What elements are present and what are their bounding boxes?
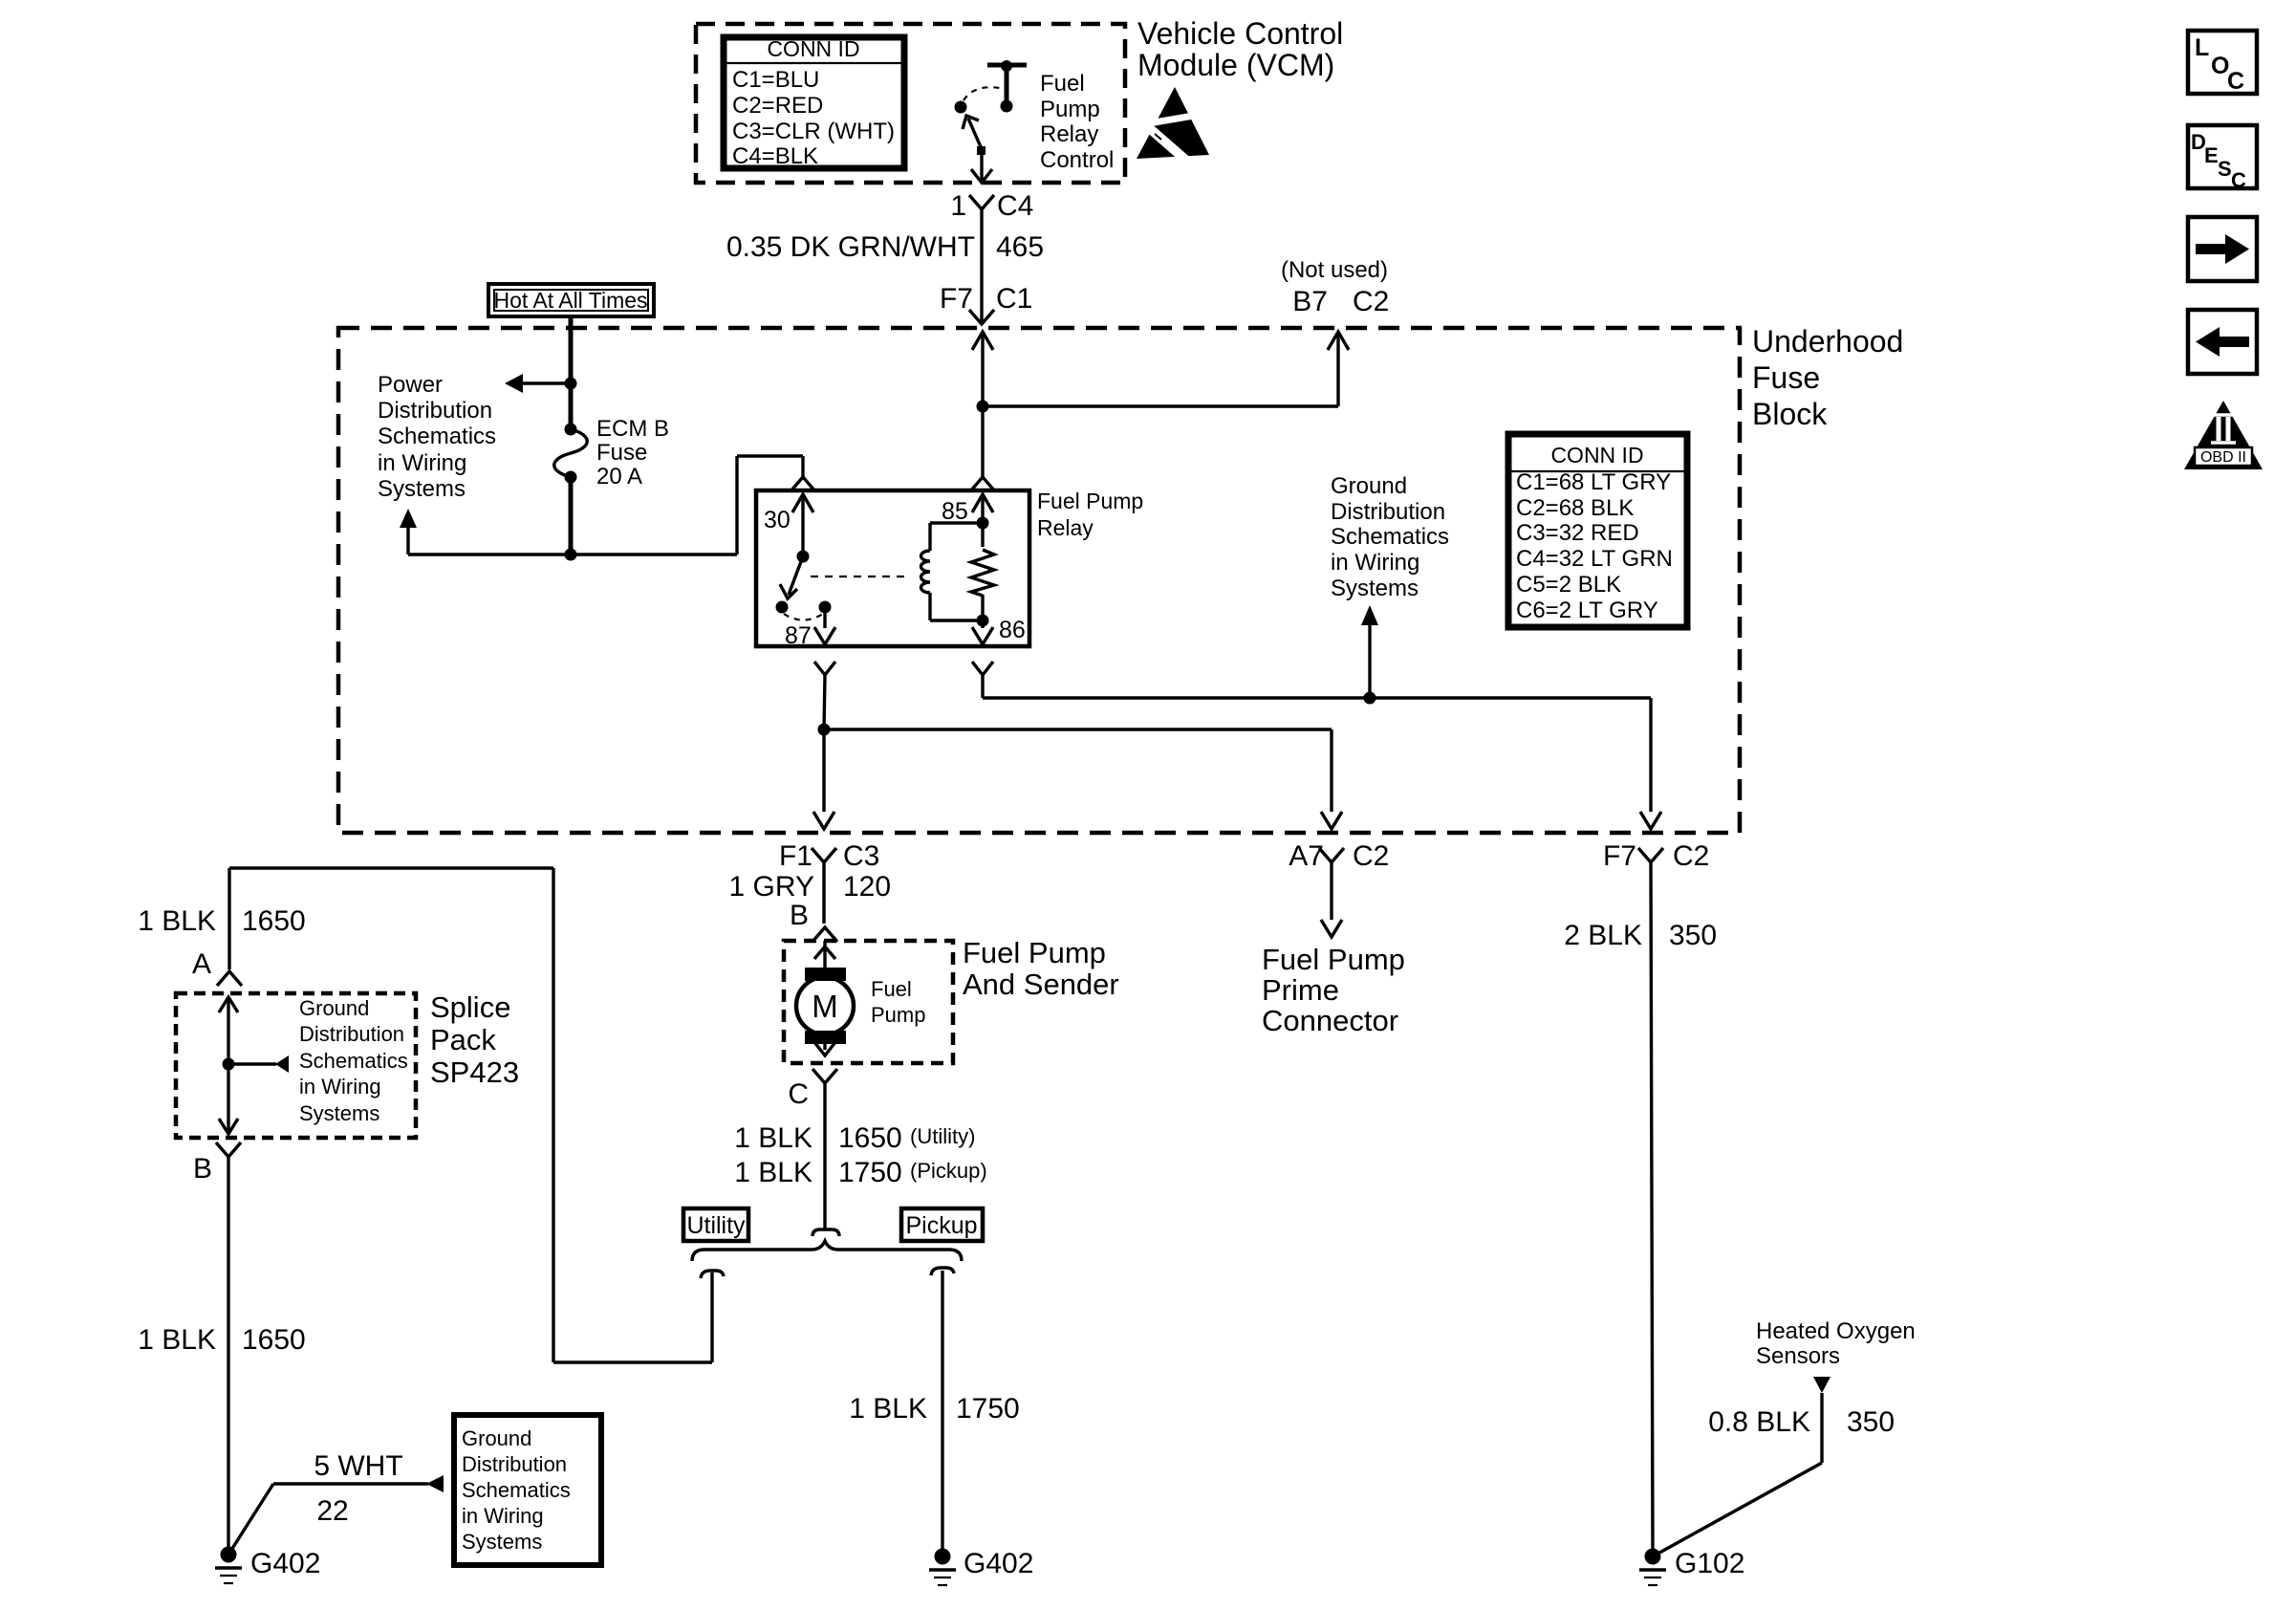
svg-text:G102: G102 <box>1675 1548 1744 1579</box>
svg-text:1650: 1650 <box>242 1324 306 1356</box>
svg-text:Fuse: Fuse <box>1752 360 1820 395</box>
svg-text:in Wiring: in Wiring <box>462 1504 544 1528</box>
svg-text:C: C <box>2227 68 2244 95</box>
svg-text:87: 87 <box>785 622 812 649</box>
svg-text:C6=2 LT GRY: C6=2 LT GRY <box>1516 598 1658 623</box>
svg-text:465: 465 <box>996 231 1044 263</box>
svg-text:Ground: Ground <box>462 1426 531 1450</box>
svg-text:Systems: Systems <box>299 1101 379 1125</box>
svg-text:M: M <box>812 989 838 1024</box>
svg-text:L: L <box>2195 34 2209 61</box>
svg-text:1650: 1650 <box>242 905 306 937</box>
svg-text:G402: G402 <box>250 1548 320 1579</box>
svg-text:5 WHT: 5 WHT <box>314 1450 402 1482</box>
svg-text:350: 350 <box>1669 920 1717 951</box>
svg-text:Schematics: Schematics <box>462 1478 571 1502</box>
svg-text:1 GRY: 1 GRY <box>729 871 815 903</box>
svg-text:120: 120 <box>843 871 891 903</box>
svg-text:C2: C2 <box>1353 286 1389 317</box>
svg-text:350: 350 <box>1847 1406 1895 1438</box>
svg-text:G402: G402 <box>964 1548 1033 1579</box>
svg-text:Distribution: Distribution <box>299 1022 404 1046</box>
svg-text:Schematics: Schematics <box>299 1049 408 1073</box>
svg-text:C3: C3 <box>843 840 879 872</box>
svg-text:Heated Oxygen: Heated Oxygen <box>1756 1318 1916 1344</box>
svg-text:Schematics: Schematics <box>1331 524 1449 550</box>
svg-text:2 BLK: 2 BLK <box>1564 920 1642 951</box>
svg-text:Fuel Pump: Fuel Pump <box>1037 489 1143 513</box>
svg-text:B: B <box>193 1153 212 1185</box>
svg-text:C2=68 BLK: C2=68 BLK <box>1516 495 1634 521</box>
svg-text:Distribution: Distribution <box>378 398 492 424</box>
svg-text:1 BLK: 1 BLK <box>734 1157 812 1188</box>
svg-text:C1=BLU: C1=BLU <box>732 67 819 93</box>
svg-text:B: B <box>790 900 809 931</box>
svg-text:86: 86 <box>999 617 1026 643</box>
svg-text:1 BLK: 1 BLK <box>849 1393 927 1425</box>
svg-text:(Pickup): (Pickup) <box>910 1159 987 1183</box>
svg-text:Fuel: Fuel <box>871 977 912 1001</box>
svg-text:1750: 1750 <box>838 1157 902 1188</box>
svg-text:C: C <box>788 1078 809 1110</box>
svg-text:C1=68 LT GRY: C1=68 LT GRY <box>1516 469 1671 495</box>
svg-text:C5=2 BLK: C5=2 BLK <box>1516 572 1621 598</box>
svg-text:Underhood: Underhood <box>1752 324 1903 359</box>
svg-text:Fuse: Fuse <box>596 440 647 466</box>
svg-text:Utility: Utility <box>686 1212 746 1239</box>
svg-text:Power: Power <box>378 372 443 398</box>
svg-text:ECM B: ECM B <box>596 416 669 442</box>
svg-text:in Wiring: in Wiring <box>378 450 466 476</box>
svg-text:Systems: Systems <box>1331 576 1419 601</box>
svg-text:Systems: Systems <box>462 1530 542 1554</box>
svg-text:Prime: Prime <box>1262 973 1339 1007</box>
svg-text:S: S <box>2218 157 2232 181</box>
svg-text:C3=CLR (WHT): C3=CLR (WHT) <box>732 119 895 144</box>
svg-text:in Wiring: in Wiring <box>1331 550 1419 576</box>
svg-text:Connector: Connector <box>1262 1004 1398 1037</box>
svg-text:A: A <box>192 948 211 980</box>
svg-text:Pump: Pump <box>871 1003 925 1027</box>
svg-text:85: 85 <box>942 498 968 525</box>
svg-text:Ground: Ground <box>299 996 369 1020</box>
svg-text:Pump: Pump <box>1040 97 1100 122</box>
svg-text:in Wiring: in Wiring <box>299 1075 381 1099</box>
svg-text:20 A: 20 A <box>596 464 642 490</box>
svg-text:Control: Control <box>1040 147 1114 173</box>
svg-text:F1: F1 <box>779 840 812 872</box>
svg-text:Schematics: Schematics <box>378 424 496 449</box>
svg-text:Sensors: Sensors <box>1756 1343 1840 1369</box>
svg-text:C2=RED: C2=RED <box>732 93 823 119</box>
svg-text:Fuel Pump: Fuel Pump <box>963 936 1106 969</box>
svg-text:(Utility): (Utility) <box>910 1124 975 1148</box>
svg-text:1: 1 <box>950 190 966 222</box>
svg-text:30: 30 <box>764 507 791 533</box>
svg-text:(Not used): (Not used) <box>1281 257 1388 283</box>
svg-text:Fuel: Fuel <box>1040 71 1085 97</box>
svg-text:22: 22 <box>316 1495 348 1527</box>
svg-text:C3=32 RED: C3=32 RED <box>1516 520 1639 546</box>
svg-text:CONN ID: CONN ID <box>1550 443 1643 468</box>
svg-text:Relay: Relay <box>1040 121 1098 147</box>
svg-text:Pickup: Pickup <box>905 1212 977 1239</box>
svg-text:C4: C4 <box>997 190 1033 222</box>
svg-text:C4=BLK: C4=BLK <box>732 143 818 169</box>
svg-text:Block: Block <box>1752 397 1828 431</box>
svg-text:0.8 BLK: 0.8 BLK <box>1708 1406 1810 1438</box>
svg-text:1 BLK: 1 BLK <box>734 1122 812 1154</box>
svg-text:E: E <box>2204 143 2219 167</box>
svg-text:C1: C1 <box>996 283 1032 315</box>
svg-text:Distribution: Distribution <box>1331 499 1445 525</box>
svg-text:SP423: SP423 <box>430 1055 519 1089</box>
svg-text:Distribution: Distribution <box>462 1452 567 1476</box>
svg-text:C4=32 LT GRN: C4=32 LT GRN <box>1516 546 1673 572</box>
svg-text:C2: C2 <box>1353 840 1389 872</box>
svg-text:1 BLK: 1 BLK <box>138 905 216 937</box>
svg-text:Vehicle Control: Vehicle Control <box>1137 16 1343 51</box>
svg-text:B7: B7 <box>1292 286 1328 317</box>
svg-text:OBD II: OBD II <box>2200 449 2246 466</box>
svg-text:A7: A7 <box>1289 840 1324 872</box>
svg-text:1650: 1650 <box>838 1122 902 1154</box>
svg-text:C: C <box>2231 168 2246 192</box>
svg-text:Splice: Splice <box>430 990 510 1024</box>
svg-text:0.35 DK GRN/WHT: 0.35 DK GRN/WHT <box>726 231 975 263</box>
svg-text:Fuel Pump: Fuel Pump <box>1262 943 1405 976</box>
svg-text:F7: F7 <box>1603 840 1636 872</box>
svg-text:1750: 1750 <box>956 1393 1020 1425</box>
svg-text:Relay: Relay <box>1037 515 1094 540</box>
svg-text:Hot At All Times: Hot At All Times <box>493 288 647 313</box>
svg-text:Systems: Systems <box>378 476 466 502</box>
svg-text:And Sender: And Sender <box>963 968 1119 1001</box>
svg-text:Ground: Ground <box>1331 473 1407 499</box>
svg-text:1 BLK: 1 BLK <box>138 1324 216 1356</box>
svg-text:C2: C2 <box>1673 840 1709 872</box>
svg-text:Pack: Pack <box>430 1023 496 1056</box>
svg-text:Module (VCM): Module (VCM) <box>1137 48 1334 82</box>
svg-text:CONN ID: CONN ID <box>767 36 859 61</box>
svg-text:F7: F7 <box>940 283 973 315</box>
